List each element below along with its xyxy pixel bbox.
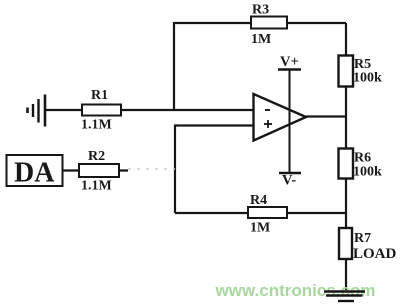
wire faint segment R2 node [128, 168, 175, 170]
svg-text:R3: R3 [252, 3, 269, 18]
resistor R3 [251, 17, 287, 29]
power pin V- [279, 121, 301, 189]
resistor R6 [339, 149, 354, 179]
svg-text:100k: 100k [353, 165, 382, 180]
svg-text:V-: V- [282, 173, 296, 189]
svg-text:1.1M: 1.1M [81, 179, 112, 194]
power pin V+ [278, 54, 301, 121]
svg-text:DA: DA [14, 158, 55, 189]
wire inverting input row [46, 109, 253, 111]
ground G2 (bottom, load ground) [324, 292, 365, 302]
ground G1 (input ground, left) [28, 95, 46, 127]
svg-text:LOAD: LOAD [353, 246, 397, 262]
wire right rail [345, 23, 347, 290]
svg-text:R2: R2 [88, 149, 105, 164]
resistor R1 [82, 105, 121, 116]
resistor R5 [339, 56, 354, 87]
wire left vertical lower (non-inverting node to R4 row) [174, 125, 176, 214]
svg-text:1M: 1M [250, 221, 270, 236]
svg-text:V+: V+ [280, 54, 299, 70]
svg-text:1M: 1M [251, 32, 271, 47]
wire left vertical (feedback to inverting node) [173, 22, 175, 110]
wire op-amp output [306, 115, 346, 117]
svg-text:R6: R6 [354, 151, 371, 166]
wire top feedback row [173, 22, 346, 24]
wire from R2 to non-inverting node [61, 169, 128, 171]
resistor R2 [79, 164, 119, 177]
wire non-inverting input row [175, 124, 253, 126]
svg-text:R7: R7 [354, 231, 371, 246]
svg-text:R1: R1 [91, 88, 108, 103]
svg-text:1.1M: 1.1M [81, 118, 112, 133]
op-amp U1 [254, 94, 307, 141]
wire bottom R4 row [175, 212, 346, 214]
DA source block [7, 155, 63, 186]
svg-text:R4: R4 [250, 193, 267, 208]
svg-text:100k: 100k [353, 71, 382, 86]
resistor R7 [339, 228, 352, 259]
resistor R4 [248, 207, 287, 218]
